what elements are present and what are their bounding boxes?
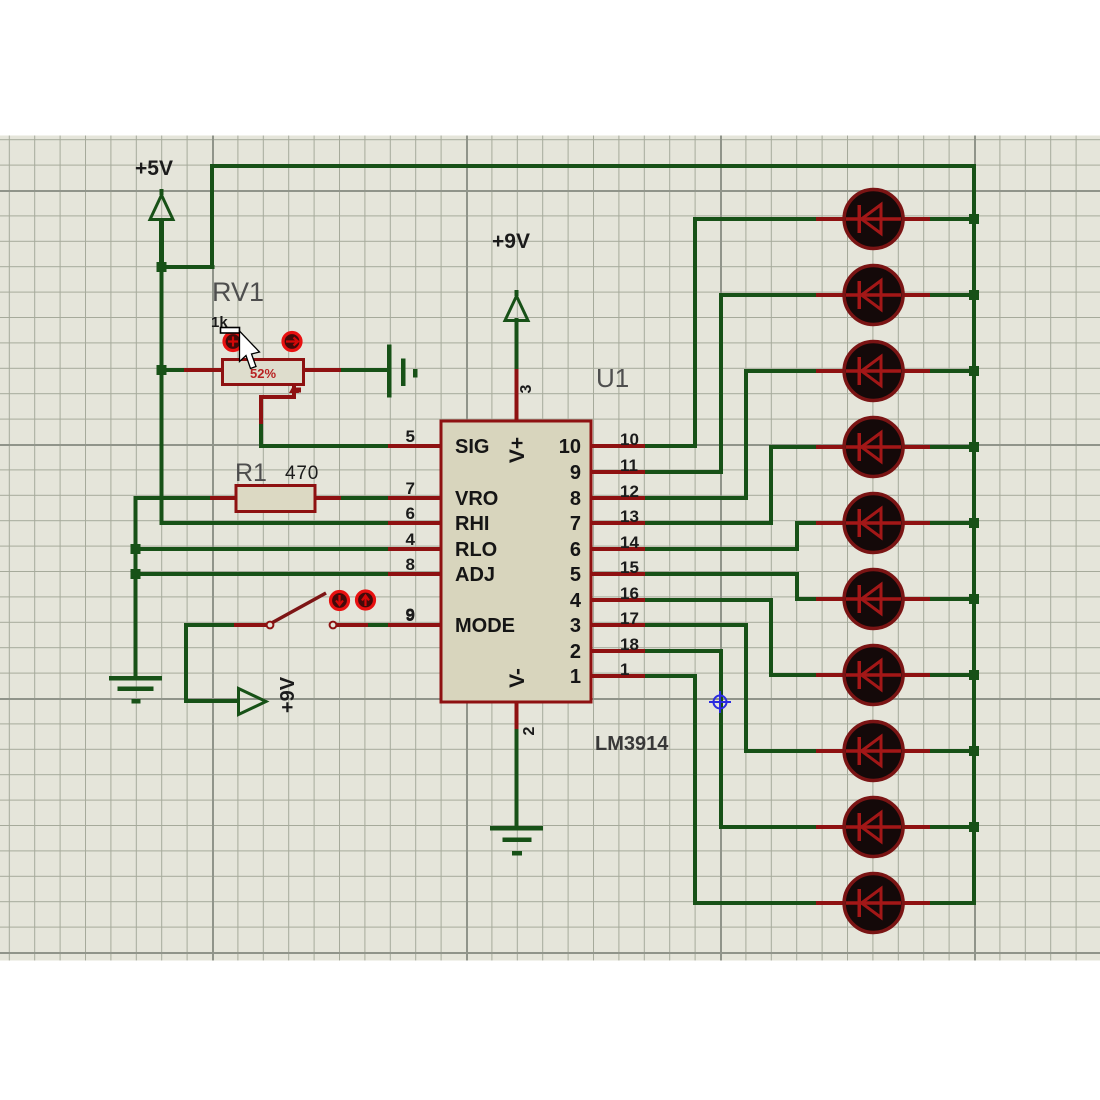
battery cell symbol	[387, 345, 418, 398]
svg-text:14: 14	[620, 533, 639, 552]
wire U1 pin row 3 horizontal	[591, 496, 748, 500]
pin stub LED D7 anode	[816, 673, 846, 677]
junction node J7	[969, 366, 979, 376]
RV1 decrease button	[224, 333, 242, 351]
wire RHI row to U1	[160, 521, 393, 525]
svg-text:RLO: RLO	[455, 539, 497, 561]
pin stub U1 right row 7	[591, 598, 645, 602]
svg-text:V+: V+	[506, 437, 529, 463]
wire +5V stem	[159, 219, 164, 269]
svg-text:52%: 52%	[250, 366, 276, 381]
pin stub LED D6 anode	[816, 597, 846, 601]
svg-text:12: 12	[620, 482, 639, 501]
pin stub LED D10 cathode	[901, 901, 930, 905]
wire riser to LED D4	[769, 445, 773, 525]
svg-text:+9V: +9V	[277, 676, 299, 713]
wire VRO row through R1	[134, 496, 393, 500]
wire LED D2 to rail	[927, 293, 976, 297]
pin stub LED D7 cathode	[901, 673, 930, 677]
wire U1 pin row 5 horizontal	[591, 547, 799, 551]
wire LED D9 to rail	[927, 825, 976, 829]
svg-text:18: 18	[620, 635, 639, 654]
pin stub LED D5 cathode	[901, 521, 930, 525]
wire riser to LED D3	[744, 369, 748, 500]
wire U1 pin row 1 horizontal	[591, 444, 697, 448]
svg-text:SIG: SIG	[455, 436, 489, 458]
pin stub U1 VRO	[388, 496, 441, 500]
pin stub RV1 wiper horizontal	[259, 395, 296, 399]
wire into LED D9	[719, 825, 822, 829]
svg-text:6: 6	[406, 504, 415, 523]
svg-text:VRO: VRO	[455, 488, 498, 510]
LED D6	[844, 570, 903, 629]
wire to +9V terminal	[184, 699, 240, 703]
wire ground riser left	[134, 496, 138, 679]
svg-text:9: 9	[570, 462, 581, 484]
wire riser to LED D6	[795, 572, 799, 601]
svg-text:17: 17	[620, 609, 639, 628]
wire U1 pin row 2 horizontal	[591, 470, 723, 474]
pin stub LED D1 anode	[816, 217, 846, 221]
pin stub U1 right row 2	[591, 470, 645, 474]
power terminal +9V (right-pointing, at switch)	[239, 689, 267, 715]
svg-text:10: 10	[620, 430, 639, 449]
wire LED D7 to rail	[927, 673, 976, 677]
pin stub LED D2 anode	[816, 293, 846, 297]
wire into LED D3	[744, 369, 822, 373]
wire switch riser	[184, 623, 188, 703]
power terminal +5V	[150, 189, 173, 220]
wire +5V junction to corner	[160, 265, 215, 269]
svg-text:R1: R1	[235, 459, 267, 487]
svg-text:7: 7	[406, 479, 415, 498]
pin stub U1 V-	[515, 702, 519, 729]
wire riser to LED D9	[719, 649, 723, 829]
pin stub LED D8 cathode	[901, 749, 930, 753]
wire U1 pin row 6 horizontal	[591, 572, 799, 576]
svg-text:2: 2	[521, 726, 538, 735]
LED D4	[844, 418, 903, 477]
pin stub switch pole	[234, 623, 268, 627]
LED D5	[844, 494, 903, 553]
pin stub U1 right row 10	[591, 674, 645, 678]
svg-text:16: 16	[620, 584, 639, 603]
pin stub U1 right row 4	[591, 521, 645, 525]
LED D1	[844, 190, 903, 249]
pin stub U1 RLO	[388, 547, 441, 551]
svg-text:11: 11	[620, 456, 638, 475]
pin stub LED D2 cathode	[901, 293, 930, 297]
wire riser to LED D1	[693, 217, 697, 448]
pin stub U1 MODE	[388, 623, 441, 627]
wire wiper to SIG	[259, 444, 392, 448]
wire right rail	[972, 164, 976, 905]
svg-text:LM3914: LM3914	[595, 733, 669, 755]
pin stub LED D9 cathode	[901, 825, 930, 829]
junction node J6	[969, 290, 979, 300]
svg-text:9: 9	[406, 606, 415, 625]
wire into LED D5	[795, 521, 822, 525]
pin stub U1 right row 5	[591, 547, 645, 551]
pin stub LED D1 cathode	[901, 217, 930, 221]
pin stub U1 RHI	[388, 521, 441, 525]
wire into LED D7	[769, 673, 822, 677]
junction node J1	[157, 262, 167, 272]
switch up button	[357, 591, 375, 609]
pin stub LED D4 cathode	[901, 445, 930, 449]
pin stub LED D6 cathode	[901, 597, 930, 601]
wire U1 pin row 9 horizontal	[591, 649, 723, 653]
pin stub LED D9 anode	[816, 825, 846, 829]
switch throw contact	[330, 622, 337, 629]
wire LED D3 to rail	[927, 369, 976, 373]
wire ADJ row	[134, 572, 393, 576]
potentiometer RV1 body	[223, 360, 304, 385]
pin stub R1 right	[313, 496, 341, 500]
pin stub U1 right row 6	[591, 572, 645, 576]
wire switch to MODE	[334, 623, 392, 627]
wire LED D8 to rail	[927, 749, 976, 753]
svg-text:3: 3	[518, 384, 535, 393]
pin stub LED D4 anode	[816, 445, 846, 449]
LED D3	[844, 342, 903, 401]
pin stub LED D5 anode	[816, 521, 846, 525]
pin stub LED D3 anode	[816, 369, 846, 373]
wire pot left lead row	[160, 368, 228, 372]
resistor R1 body	[236, 486, 315, 512]
wire LED D5 to rail	[927, 521, 976, 525]
wire U1 pin row 10 horizontal	[591, 674, 697, 678]
junction node J5	[969, 214, 979, 224]
svg-text:1: 1	[620, 660, 629, 679]
origin marker crosshair	[709, 691, 731, 713]
LED D9	[844, 798, 903, 857]
svg-text:4: 4	[406, 530, 416, 549]
mouse cursor	[221, 328, 260, 369]
wire riser to LED D7	[769, 598, 773, 677]
wire into LED D8	[744, 749, 822, 753]
pin stub U1 right row 8	[591, 623, 645, 627]
pin stub RV1 wiper drop	[292, 383, 296, 399]
wire top rail	[210, 164, 976, 168]
wire into LED D2	[719, 293, 822, 297]
pin stub U1 V+	[515, 369, 519, 421]
pin stub RV1 left	[184, 368, 225, 372]
wire V- to ground	[515, 700, 519, 829]
RV1 increase button	[283, 333, 301, 351]
svg-text:RHI: RHI	[455, 513, 489, 535]
junction node J12	[969, 746, 979, 756]
svg-text:5: 5	[570, 564, 581, 586]
power terminal +9V (top)	[505, 290, 528, 321]
junction node J9	[969, 518, 979, 528]
pin stub U1 right row 1	[591, 444, 645, 448]
svg-text:RV1: RV1	[212, 277, 264, 307]
svg-text:+9V: +9V	[492, 230, 530, 253]
switch lever	[273, 593, 327, 623]
svg-text:6: 6	[570, 539, 581, 561]
pin stub RV1 wiper down	[259, 395, 263, 424]
svg-text:7: 7	[570, 513, 581, 535]
wire RLO row	[134, 547, 393, 551]
pin stub LED D8 anode	[816, 749, 846, 753]
pin stub U1 SIG	[388, 444, 441, 448]
pin stub LED D3 cathode	[901, 369, 930, 373]
pin stub RV1 right	[301, 368, 341, 372]
pin stub switch throw	[336, 623, 368, 627]
switch pole contact	[267, 622, 274, 629]
wire U1 pin row 7 horizontal	[591, 598, 773, 602]
LED D2	[844, 266, 903, 325]
svg-text:1: 1	[570, 666, 581, 688]
wire into LED D1	[693, 217, 822, 221]
svg-text:MODE: MODE	[455, 615, 515, 637]
op-amp U1 LM3914 body	[441, 421, 591, 702]
wire pot right to battery	[301, 368, 387, 372]
svg-text:5: 5	[406, 427, 415, 446]
LED D10	[844, 874, 903, 933]
wire into LED D10	[693, 901, 822, 905]
wire into LED D4	[769, 445, 822, 449]
wire switch pole left	[184, 623, 240, 627]
wire riser to LED D5	[795, 521, 799, 551]
junction node J10	[969, 594, 979, 604]
wire V+ supply	[515, 318, 519, 423]
LED D7	[844, 646, 903, 705]
wire corner up to top rail	[210, 164, 214, 269]
svg-text:8: 8	[570, 488, 581, 510]
svg-text:13: 13	[620, 507, 639, 526]
junction node J4	[131, 569, 141, 579]
svg-text:15: 15	[620, 558, 639, 577]
ground (left)	[109, 676, 162, 704]
wire LED D1 to rail	[927, 217, 976, 221]
junction node J2	[157, 365, 167, 375]
pin stub U1 right row 9	[591, 649, 645, 653]
svg-text:ADJ: ADJ	[455, 564, 495, 586]
svg-text:V-: V-	[506, 668, 529, 688]
ground (below U1)	[490, 826, 543, 856]
wire riser to LED D8	[744, 623, 748, 753]
pin stub R1 left	[210, 496, 237, 500]
svg-text:8: 8	[406, 555, 415, 574]
svg-text:U1: U1	[596, 363, 629, 393]
pin stub U1 right row 3	[591, 496, 645, 500]
junction node J13	[969, 822, 979, 832]
wire U1 pin row 4 horizontal	[591, 521, 773, 525]
svg-text:3: 3	[570, 615, 581, 637]
RV1 wiper arrow	[289, 384, 301, 393]
pin stub U1 ADJ	[388, 572, 441, 576]
switch down button	[331, 592, 349, 610]
junction node J11	[969, 670, 979, 680]
wire LED D6 to rail	[927, 597, 976, 601]
junction node J8	[969, 442, 979, 452]
svg-text:10: 10	[559, 436, 581, 458]
svg-text:+5V: +5V	[135, 157, 173, 180]
svg-text:470: 470	[285, 463, 319, 484]
junction node J3	[131, 544, 141, 554]
wire riser to LED D10	[693, 674, 697, 905]
wire wiper vertical	[259, 420, 263, 448]
wire into LED D6	[795, 597, 822, 601]
svg-text:4: 4	[570, 590, 582, 612]
wire LED D10 to rail	[927, 901, 976, 905]
wire riser to LED D2	[719, 293, 723, 474]
wire U1 pin row 8 horizontal	[591, 623, 748, 627]
wire LED D4 to rail	[927, 445, 976, 449]
svg-text:2: 2	[570, 641, 581, 663]
LED D8	[844, 722, 903, 781]
pin stub LED D10 anode	[816, 901, 846, 905]
wire +5V down to RHI	[160, 267, 164, 525]
